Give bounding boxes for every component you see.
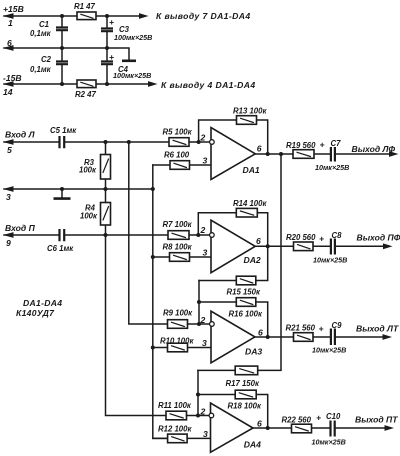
label Vyhod PF bbox=[357, 233, 400, 243]
label R7 100k bbox=[163, 220, 193, 229]
label R21 560 bbox=[286, 324, 316, 333]
svg-text:3: 3 bbox=[6, 192, 11, 202]
wire DA4 noninv input bbox=[153, 437, 211, 439]
label R19 560 bbox=[286, 141, 316, 150]
junction (105.5,235) bbox=[104, 233, 108, 237]
label K vyvodu 4 DA1-DA4 bbox=[161, 80, 256, 90]
junction DA2 noninv tap bbox=[151, 255, 155, 259]
resistor R19 bbox=[293, 150, 314, 159]
junction (107,16) bbox=[105, 14, 109, 18]
wire DA3 inverting column bbox=[198, 281, 200, 325]
wire common input 3 bbox=[4, 188, 153, 190]
svg-text:Вход Л: Вход Л bbox=[5, 130, 36, 140]
resistor R9 bbox=[168, 320, 188, 329]
svg-text:C5 1мк: C5 1мк bbox=[50, 126, 77, 135]
svg-text:9: 9 bbox=[6, 238, 11, 248]
svg-text:DA1: DA1 bbox=[243, 165, 260, 175]
label +15V bbox=[3, 4, 24, 14]
junction (62,84) bbox=[60, 82, 64, 86]
label C4 bbox=[113, 65, 151, 80]
junction DA3 feedback node bbox=[266, 335, 270, 339]
resistor R1 bbox=[77, 12, 96, 20]
terminal arrow +15V bbox=[3, 13, 14, 19]
svg-text:10мк×25В: 10мк×25В bbox=[315, 163, 349, 172]
svg-text:C8: C8 bbox=[332, 231, 343, 240]
junction (62,16) bbox=[60, 14, 64, 18]
label Vhod L bbox=[5, 130, 36, 140]
resistor R10 bbox=[168, 343, 188, 352]
op-amp DA2 bbox=[210, 220, 256, 273]
label R3 100k bbox=[79, 158, 97, 175]
junction R18 tap bbox=[196, 393, 200, 397]
wire DA2 feedback loop bbox=[198, 213, 267, 247]
label R1 47 bbox=[74, 2, 95, 11]
label Vyhod LT bbox=[356, 324, 399, 334]
svg-text:R21 560: R21 560 bbox=[286, 324, 316, 333]
svg-text:+: + bbox=[109, 17, 114, 27]
svg-text:5: 5 bbox=[7, 145, 12, 155]
wire C2 leg bbox=[61, 48, 63, 84]
wire DA3 feedback loop bbox=[199, 302, 268, 337]
label C8 value bbox=[313, 256, 347, 265]
svg-text:R20 560: R20 560 bbox=[286, 233, 316, 242]
resistor R21 bbox=[294, 333, 314, 342]
svg-text:10мк×25В: 10мк×25В bbox=[312, 438, 346, 447]
svg-text:C9: C9 bbox=[332, 321, 343, 330]
op-amp DA4 bbox=[209, 403, 253, 452]
svg-text:6: 6 bbox=[256, 236, 261, 246]
svg-text:14: 14 bbox=[3, 87, 13, 97]
pin label 14 bbox=[3, 87, 13, 97]
svg-text:C6 1мк: C6 1мк bbox=[47, 244, 74, 253]
label R2 47 bbox=[75, 90, 96, 99]
wire C4 leg bbox=[106, 48, 108, 84]
svg-text:6: 6 bbox=[257, 418, 262, 428]
wire DA4 inverting column bbox=[197, 370, 199, 415]
wire input L bbox=[4, 141, 211, 143]
label R17 150k bbox=[226, 379, 260, 388]
pin label 6 DA3 bbox=[258, 328, 263, 338]
svg-text:+15В: +15В bbox=[3, 4, 24, 14]
junction DA4 feedback node bbox=[266, 426, 270, 430]
capacitor C6 bbox=[60, 229, 65, 241]
svg-text:Выход ПТ: Выход ПТ bbox=[355, 415, 398, 425]
svg-text:R12 100к: R12 100к bbox=[158, 424, 192, 433]
pin label 9 bbox=[6, 238, 11, 248]
pin label 5 bbox=[7, 145, 12, 155]
svg-text:3: 3 bbox=[202, 338, 207, 348]
arrow to pin 4 bbox=[148, 81, 158, 87]
pin label 2 DA4 bbox=[200, 407, 206, 417]
capacitor C10 bbox=[316, 413, 335, 437]
svg-text:DA2: DA2 bbox=[244, 255, 261, 265]
svg-text:C10: C10 bbox=[326, 412, 341, 421]
svg-text:Вход П: Вход П bbox=[5, 223, 36, 233]
svg-text:R22 560: R22 560 bbox=[282, 415, 312, 424]
arrow to pin 7 bbox=[139, 13, 149, 19]
pin label 6 DA4 bbox=[257, 418, 262, 428]
svg-text:-15В: -15В bbox=[3, 73, 22, 83]
wire DA1 feedback loop bbox=[199, 120, 268, 154]
label C10 bbox=[326, 412, 341, 421]
output arrow PT bbox=[385, 425, 395, 431]
junction (152.8,189) bbox=[151, 187, 155, 191]
label R4 100k bbox=[80, 204, 98, 221]
label C10 value bbox=[312, 438, 346, 447]
wire DA4 feedback loop bbox=[198, 395, 268, 429]
label K vyvodu 7 DA1-DA4 bbox=[156, 11, 251, 21]
label C9 value bbox=[312, 346, 346, 355]
junction DA1 inverting node bbox=[197, 140, 201, 144]
resistor R15 bbox=[236, 276, 256, 285]
resistor R18 bbox=[235, 390, 256, 399]
terminal arrow input P bbox=[3, 232, 14, 238]
svg-text:Выход ПФ: Выход ПФ bbox=[357, 233, 400, 243]
wire DA3 noninv input bbox=[153, 347, 211, 349]
junction R16 tap bbox=[197, 300, 201, 304]
capacitor C2 bbox=[56, 62, 68, 65]
svg-text:100мк×25В: 100мк×25В bbox=[114, 33, 152, 42]
junction (105.5,142) bbox=[104, 140, 108, 144]
junction (62,189) bbox=[60, 187, 64, 191]
svg-text:+: + bbox=[316, 413, 321, 423]
label R20 560 bbox=[286, 233, 316, 242]
svg-text:R9 100к: R9 100к bbox=[163, 308, 193, 317]
terminal arrow 6 bbox=[3, 45, 14, 51]
wire -15V rail bbox=[4, 83, 149, 85]
label R18 100k bbox=[228, 402, 262, 411]
label DA2 bbox=[244, 255, 261, 265]
label C1 bbox=[30, 20, 52, 38]
label R14 100k bbox=[233, 199, 267, 208]
wire bus P signal down to R11 bbox=[106, 235, 167, 416]
wire R9 to DA3 bbox=[188, 323, 212, 325]
label Vyhod LF bbox=[352, 144, 396, 154]
terminal arrow -15V bbox=[3, 81, 14, 87]
wire ground branch bbox=[107, 48, 129, 60]
svg-text:2: 2 bbox=[200, 133, 206, 143]
output arrow LT bbox=[383, 334, 393, 340]
resistor R14 bbox=[236, 208, 257, 217]
svg-text:К выводу 7 DA1-DA4: К выводу 7 DA1-DA4 bbox=[156, 11, 251, 21]
svg-text:DA1-DA4: DA1-DA4 bbox=[23, 298, 62, 308]
ground bbox=[122, 59, 136, 62]
resistor R22 bbox=[292, 424, 312, 433]
terminal arrow 3 bbox=[3, 186, 14, 192]
junction (105.5,189) bbox=[104, 187, 108, 191]
svg-text:0,1мк: 0,1мк bbox=[30, 29, 52, 38]
wire DA1 output bbox=[255, 153, 390, 155]
wire R15 link from DA2 output bbox=[199, 246, 268, 280]
svg-text:C7: C7 bbox=[331, 139, 342, 148]
label R11 100k bbox=[158, 401, 192, 410]
pin label 3 bbox=[6, 192, 11, 202]
resistor R6 bbox=[170, 161, 190, 170]
svg-text:100к: 100к bbox=[80, 212, 98, 221]
junction DA4 inverting node bbox=[196, 414, 200, 418]
svg-text:3: 3 bbox=[203, 429, 208, 439]
svg-text:R2 47: R2 47 bbox=[75, 90, 96, 99]
resistor R5 bbox=[169, 138, 189, 147]
svg-text:К выводу 4 DA1-DA4: К выводу 4 DA1-DA4 bbox=[161, 80, 256, 90]
label R8 100k bbox=[163, 243, 193, 252]
label C3 bbox=[114, 25, 152, 42]
pin label 3 DA4 bbox=[203, 429, 208, 439]
svg-text:+: + bbox=[109, 52, 114, 62]
label Vhod P bbox=[5, 223, 36, 233]
label R5 100k bbox=[163, 128, 193, 137]
junction DA3 noninv tap bbox=[151, 346, 155, 350]
svg-text:R16 100к: R16 100к bbox=[229, 310, 263, 319]
svg-text:R8 100к: R8 100к bbox=[163, 243, 193, 252]
resistor R11 bbox=[166, 411, 187, 420]
wire common rail 6 bbox=[4, 47, 107, 49]
capacitor C5 bbox=[60, 136, 65, 148]
wire +15V rail bbox=[4, 15, 140, 17]
svg-text:1: 1 bbox=[8, 18, 13, 28]
resistor R20 bbox=[294, 242, 314, 251]
wire input P bbox=[4, 234, 211, 236]
svg-text:DA4: DA4 bbox=[244, 439, 261, 449]
wire bus L signal down to R9 bbox=[129, 142, 168, 324]
label Vyhod PT bbox=[355, 415, 398, 425]
pin label 3 DA3 bbox=[202, 338, 207, 348]
junction DA2 inverting node bbox=[196, 233, 200, 237]
resistor R17 bbox=[235, 366, 258, 375]
pin label 6 DA1 bbox=[257, 143, 262, 153]
capacitor C1 bbox=[56, 28, 68, 31]
label R12 100k bbox=[158, 424, 192, 433]
capacitor C7 bbox=[320, 140, 335, 162]
svg-text:R17 150к: R17 150к bbox=[226, 379, 260, 388]
wire DA4 output bbox=[253, 427, 385, 429]
label C2 bbox=[30, 55, 52, 74]
svg-text:6: 6 bbox=[257, 143, 262, 153]
ground at input bbox=[54, 189, 71, 199]
svg-text:R7 100к: R7 100к bbox=[163, 220, 193, 229]
svg-text:10мк×25В: 10мк×25В bbox=[313, 256, 347, 265]
wire DA2 output bbox=[255, 245, 384, 247]
svg-text:R1 47: R1 47 bbox=[74, 2, 95, 11]
svg-text:Выход ЛФ: Выход ЛФ bbox=[352, 144, 396, 154]
label C5 1mk bbox=[50, 126, 77, 135]
resistor R13 bbox=[237, 116, 257, 125]
label DA3 bbox=[245, 346, 262, 356]
junction DA1 feedback node bbox=[266, 152, 270, 156]
label -15V bbox=[3, 73, 22, 83]
label C9 bbox=[332, 321, 343, 330]
svg-text:2: 2 bbox=[200, 407, 206, 417]
label C7 value bbox=[315, 163, 349, 172]
pin label 1 bbox=[8, 18, 13, 28]
svg-text:R6 100: R6 100 bbox=[164, 150, 190, 159]
svg-text:R10 100к: R10 100к bbox=[160, 336, 194, 345]
resistor R4 bbox=[101, 203, 111, 226]
resistor R7 bbox=[168, 231, 189, 240]
junction (62,48) bbox=[60, 46, 64, 50]
junction DA3 inverting node bbox=[197, 322, 201, 326]
wire DA2 noninv input bbox=[153, 256, 211, 258]
wire DA3 output bbox=[255, 336, 383, 338]
resistor R3 bbox=[101, 155, 111, 180]
capacitor C9 bbox=[319, 324, 335, 346]
pin label 6 DA2 bbox=[256, 236, 261, 246]
capacitor C4 bbox=[101, 52, 114, 64]
output arrow PF bbox=[383, 243, 393, 249]
svg-text:6: 6 bbox=[7, 38, 12, 48]
svg-text:C2: C2 bbox=[41, 55, 52, 64]
output arrow LF bbox=[389, 151, 399, 157]
svg-text:DA3: DA3 bbox=[245, 346, 262, 356]
junction (107,48) bbox=[105, 46, 109, 50]
svg-text:2: 2 bbox=[200, 315, 206, 325]
pin label 3 DA1 bbox=[203, 156, 208, 166]
label R6 100 bbox=[164, 150, 190, 159]
svg-text:R19 560: R19 560 bbox=[286, 141, 316, 150]
wire R17 link from DA1 output bbox=[198, 154, 281, 370]
svg-text:R11 100к: R11 100к bbox=[158, 401, 192, 410]
svg-text:+: + bbox=[319, 324, 324, 334]
pin label 2 DA2 bbox=[200, 225, 206, 235]
op-amp DA1 bbox=[210, 128, 256, 180]
svg-text:2: 2 bbox=[200, 225, 206, 235]
label R13 100k bbox=[233, 106, 267, 115]
wire C3 leg bbox=[106, 16, 108, 48]
label R16 100k bbox=[229, 310, 263, 319]
wire DA1 noninv input bbox=[153, 164, 211, 166]
wire bus ground column bbox=[153, 165, 168, 438]
capacitor C8 bbox=[319, 234, 335, 255]
svg-text:0,1мк: 0,1мк bbox=[30, 65, 52, 74]
label R15 150k bbox=[227, 288, 261, 297]
junction (128.8,142) bbox=[127, 140, 131, 144]
svg-text:+: + bbox=[319, 234, 324, 244]
wire R11 to DA4 bbox=[187, 415, 211, 417]
label C8 bbox=[332, 231, 343, 240]
svg-text:К140УД7: К140УД7 bbox=[16, 308, 55, 318]
junction DA2 feedback node bbox=[266, 244, 270, 248]
svg-text:R13 100к: R13 100к bbox=[233, 106, 267, 115]
capacitor C3 bbox=[101, 17, 114, 31]
svg-text:R15 150к: R15 150к bbox=[227, 288, 261, 297]
resistor R16 bbox=[236, 298, 256, 307]
op-amp DA3 bbox=[210, 311, 255, 363]
junction DA1 tap node bbox=[279, 152, 283, 156]
label 6 bbox=[7, 38, 12, 48]
svg-text:+: + bbox=[320, 140, 325, 150]
resistor R8 bbox=[170, 253, 190, 262]
pin label 2 DA1 bbox=[200, 133, 206, 143]
svg-text:100мк×25В: 100мк×25В bbox=[113, 71, 151, 80]
svg-text:100к: 100к bbox=[79, 166, 97, 175]
terminal arrow input L bbox=[3, 139, 14, 145]
svg-text:Выход ЛТ: Выход ЛТ bbox=[356, 324, 399, 334]
svg-text:R14 100к: R14 100к bbox=[233, 199, 267, 208]
resistor R2 bbox=[77, 80, 96, 88]
svg-text:3: 3 bbox=[203, 248, 208, 258]
pin label 3 DA2 bbox=[203, 248, 208, 258]
label DA1 bbox=[243, 165, 260, 175]
svg-text:10мк×25В: 10мк×25В bbox=[312, 346, 346, 355]
label R10 100k bbox=[160, 336, 194, 345]
svg-text:C1: C1 bbox=[39, 20, 49, 29]
resistor R12 bbox=[168, 434, 188, 443]
label C6 1mk bbox=[47, 244, 74, 253]
wire bus R3R4 column bbox=[105, 142, 107, 235]
svg-text:R18 100к: R18 100к bbox=[228, 402, 262, 411]
svg-text:R5 100к: R5 100к bbox=[163, 128, 193, 137]
label R22 560 bbox=[282, 415, 312, 424]
svg-text:3: 3 bbox=[203, 156, 208, 166]
junction (107,84) bbox=[105, 82, 109, 86]
label C7 bbox=[331, 139, 342, 148]
wire C1 leg bbox=[61, 16, 63, 48]
label DA1-DA4 type bbox=[16, 298, 62, 318]
label DA4 bbox=[244, 439, 261, 449]
svg-text:6: 6 bbox=[258, 328, 263, 338]
label R9 100k bbox=[163, 308, 193, 317]
pin label 2 DA3 bbox=[200, 315, 206, 325]
